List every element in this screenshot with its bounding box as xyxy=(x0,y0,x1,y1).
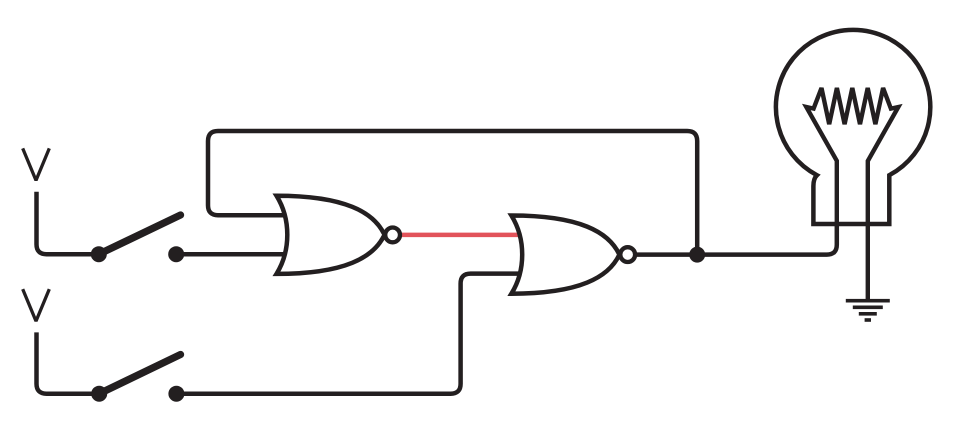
nor-gate U1 body xyxy=(277,196,385,274)
ground symbol xyxy=(846,299,890,322)
switch S2 pole dot xyxy=(91,386,107,402)
wire feedback Q from node A to gate U1 input A xyxy=(208,131,697,255)
switch S1 lever xyxy=(99,215,181,254)
nor-gate U2 inversion bubble xyxy=(620,247,635,262)
nor-gate U2 body xyxy=(511,216,619,294)
switch S2 lever xyxy=(99,355,180,394)
switch S1 pole dot xyxy=(91,246,107,262)
supply V1 wire xyxy=(37,192,100,255)
lamp DS1 filament and leads xyxy=(806,88,898,300)
wire red Q-bar from gate U1 output to gate U2 input A xyxy=(402,233,524,238)
supply symbol V2 xyxy=(23,289,50,321)
nor-gate U1 inversion bubble xyxy=(385,228,400,243)
supply V2 wire xyxy=(37,332,100,393)
node A junction dot xyxy=(689,247,705,263)
wire switch2 output to gate U2 input B xyxy=(176,274,523,394)
wire switch1 output to gate U1 input B xyxy=(176,252,290,257)
supply symbol V1 xyxy=(23,148,50,180)
wire gate U2 output to node A and to lamp xyxy=(636,161,837,255)
switch S2 throw dot xyxy=(168,386,184,402)
lamp DS1 envelope xyxy=(776,30,930,224)
switch S1 throw dot xyxy=(168,246,184,262)
